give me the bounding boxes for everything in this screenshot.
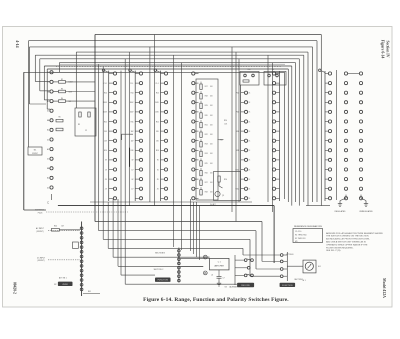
svg-text:.3V: .3V: [105, 179, 107, 181]
svg-text:1A (REAR): 1A (REAR): [229, 286, 238, 289]
svg-text:3V: 3V: [157, 160, 159, 162]
svg-text:C1-1: C1-1: [155, 83, 158, 85]
svg-text:10K: 10K: [210, 115, 213, 117]
svg-text:1K: 1K: [249, 121, 251, 123]
svg-text:1K: 1K: [249, 112, 251, 114]
svg-text:FUNCTION: FUNCTION: [282, 285, 293, 287]
svg-text:R3: R3: [61, 88, 63, 90]
svg-text:30V: 30V: [156, 131, 159, 133]
svg-text:1K: 1K: [249, 160, 251, 162]
svg-text:ATTEN B: ATTEN B: [286, 253, 294, 256]
svg-text:(FRONT): (FRONT): [37, 231, 44, 233]
svg-text:ARROWS POS. AT HIGHEST FIXTURE: ARROWS POS. AT HIGHEST FIXTURE SEGMENT S…: [326, 232, 383, 235]
svg-text:1K: 1K: [249, 179, 251, 181]
svg-text:.1V: .1V: [105, 189, 107, 191]
svg-text:10K: 10K: [210, 163, 213, 165]
svg-text:REGULATED: REGULATED: [335, 210, 347, 213]
svg-text:S3: S3: [225, 287, 227, 289]
svg-text:R20: R20: [205, 115, 208, 117]
svg-text:3V: 3V: [105, 160, 107, 162]
svg-text:300V: 300V: [103, 102, 107, 104]
svg-text:AS INDICATED, AT FRONT THROUG: AS INDICATED, AT FRONT THROUGH LEVEL: [326, 238, 371, 241]
svg-text:.1V: .1V: [131, 189, 133, 191]
svg-text:M-1: M-1: [318, 266, 321, 268]
svg-text:FRONT: FRONT: [32, 153, 38, 155]
svg-text:AMPHENOL: AMPHENOL: [35, 209, 45, 212]
svg-text:C7: C7: [223, 278, 225, 280]
svg-text:R2: R2: [61, 79, 63, 81]
svg-text:R18: R18: [205, 96, 208, 98]
svg-text:REFERENCE DESIGNATORS: REFERENCE DESIGNATORS: [294, 225, 323, 228]
svg-text:.3V: .3V: [156, 179, 158, 181]
svg-text:SEE FIG. P (N).: SEE FIG. P (N).: [326, 250, 341, 252]
svg-text:S1 THRU S3: S1 THRU S3: [295, 238, 305, 240]
svg-text:100V: 100V: [103, 112, 107, 114]
svg-text:R15: R15: [104, 121, 107, 123]
svg-text:R30: R30: [248, 69, 251, 71]
svg-text:10K: 10K: [210, 153, 213, 155]
svg-text:C2: C2: [85, 130, 87, 132]
svg-text:.3V: .3V: [131, 179, 133, 181]
svg-text:C1-1: C1-1: [130, 83, 133, 85]
svg-text:R16: R16: [104, 150, 107, 152]
svg-text:10K: 10K: [210, 96, 213, 98]
svg-text:1K: 1K: [249, 93, 251, 95]
svg-text:1K: 1K: [249, 169, 251, 171]
svg-text:30V: 30V: [131, 131, 134, 133]
svg-text:R26: R26: [205, 172, 208, 174]
svg-text:1K: 1K: [249, 189, 251, 191]
svg-text:AND USE A SWITCH UNIT VIEWED A: AND USE A SWITCH UNIT VIEWED AS IS: [326, 241, 366, 244]
svg-text:Model 412A: Model 412A: [382, 278, 386, 298]
svg-text:1K: 1K: [249, 131, 251, 133]
svg-text:THE SWITCH IS VIEWED ON THE SE: THE SWITCH IS VIEWED ON THE SECTION: [326, 236, 369, 238]
svg-text:Q1: Q1: [222, 195, 224, 197]
svg-text:DC INPUT: DC INPUT: [37, 257, 45, 259]
svg-text:R27: R27: [205, 182, 208, 184]
svg-text:C1-1: C1-1: [104, 83, 107, 85]
svg-text:100V: 100V: [155, 112, 159, 114]
svg-text:FUNCTION: FUNCTION: [158, 280, 169, 282]
svg-text:1V: 1V: [157, 169, 159, 171]
svg-text:R21: R21: [205, 124, 208, 126]
svg-text:3V: 3V: [132, 160, 134, 162]
svg-text:R44: R44: [54, 226, 57, 228]
svg-text:AC INPUT: AC INPUT: [36, 227, 44, 230]
svg-text:1K: 1K: [249, 198, 251, 200]
svg-text:10K: 10K: [210, 192, 213, 194]
svg-text:R4: R4: [61, 98, 63, 100]
svg-text:FLUSH KNOWN REQUIRED.: FLUSH KNOWN REQUIRED.: [326, 247, 354, 249]
svg-text:.02: .02: [211, 275, 213, 277]
svg-text:R24: R24: [224, 120, 227, 122]
svg-text:R9: R9: [78, 124, 80, 126]
svg-text:ZERO: ZERO: [62, 284, 68, 286]
svg-text:R6: R6: [58, 116, 60, 118]
svg-text:R14: R14: [156, 93, 159, 95]
svg-text:10K: 10K: [210, 182, 213, 184]
svg-text:C: C: [47, 201, 49, 205]
svg-text:10K: 10K: [210, 134, 213, 136]
svg-text:R15: R15: [156, 121, 159, 123]
svg-text:S2: S2: [54, 284, 56, 286]
svg-text:R15: R15: [131, 121, 134, 123]
svg-text:30V: 30V: [104, 131, 107, 133]
svg-text:R26: R26: [224, 179, 227, 181]
svg-text:10K: 10K: [210, 124, 213, 126]
svg-text:R19: R19: [205, 105, 208, 107]
svg-text:(FRONT): (FRONT): [38, 260, 45, 262]
svg-text:M 1: M 1: [303, 280, 306, 282]
svg-text:10K: 10K: [210, 172, 213, 174]
svg-text:4-14: 4-14: [15, 40, 20, 47]
svg-text:R14: R14: [131, 93, 134, 95]
svg-text:ATT EN 1: ATT EN 1: [59, 277, 67, 280]
svg-text:1K: 1K: [249, 102, 251, 104]
svg-text:10V: 10V: [104, 141, 107, 143]
svg-text:R22: R22: [205, 134, 208, 136]
svg-text:1.5K: 1.5K: [224, 124, 227, 126]
svg-text:R23: R23: [205, 144, 208, 146]
svg-text:R17: R17: [205, 86, 208, 88]
svg-text:300V: 300V: [130, 102, 134, 104]
svg-text:Q-LIMIT: Q-LIMIT: [210, 204, 216, 206]
svg-text:Section IV: Section IV: [386, 41, 390, 58]
svg-text:1K: 1K: [249, 150, 251, 152]
svg-text:R24: R24: [205, 153, 208, 155]
svg-text:AMPLIFIER: AMPLIFIER: [214, 264, 224, 267]
svg-text:1K: 1K: [249, 141, 251, 143]
svg-text:00428-2: 00428-2: [13, 282, 17, 294]
svg-text:Figure 6-14. Range, Function: Figure 6-14. Range, Function and Polarit…: [143, 297, 289, 303]
svg-text:PLUG: PLUG: [38, 212, 43, 214]
svg-text:10V: 10V: [131, 141, 134, 143]
svg-text:1V: 1V: [105, 169, 107, 171]
svg-text:10V: 10V: [156, 141, 159, 143]
svg-text:10K: 10K: [210, 144, 213, 146]
svg-text:R16: R16: [131, 150, 134, 152]
svg-text:R16: R16: [156, 150, 159, 152]
svg-text:R28: R28: [205, 192, 208, 194]
svg-text:SECTION C: SECTION C: [154, 269, 164, 271]
svg-text:.1V: .1V: [156, 189, 158, 191]
svg-text:1V: 1V: [132, 169, 134, 171]
svg-text:R45: R45: [88, 291, 91, 293]
svg-text:100V: 100V: [130, 112, 134, 114]
svg-text:R25: R25: [205, 163, 208, 165]
svg-text:SECTION B: SECTION B: [155, 253, 165, 255]
svg-text:OPERATED WHILE UPPER RANGE IF: OPERATED WHILE UPPER RANGE IF THE: [326, 243, 368, 246]
svg-text:R1 THRU R50: R1 THRU R50: [295, 235, 307, 237]
svg-text:UNREGULATED: UNREGULATED: [359, 210, 373, 213]
svg-text:RECORD: RECORD: [241, 285, 250, 287]
svg-text:10K: 10K: [210, 105, 213, 107]
svg-text:10K: 10K: [210, 86, 213, 88]
svg-text:C 1: C 1: [218, 262, 221, 264]
svg-text:Figure 6-14: Figure 6-14: [381, 40, 385, 59]
svg-text:C1-C10: C1-C10: [295, 231, 301, 233]
svg-text:300V: 300V: [155, 102, 159, 104]
svg-text:M1: M1: [295, 241, 298, 243]
svg-text:R14: R14: [104, 93, 107, 95]
